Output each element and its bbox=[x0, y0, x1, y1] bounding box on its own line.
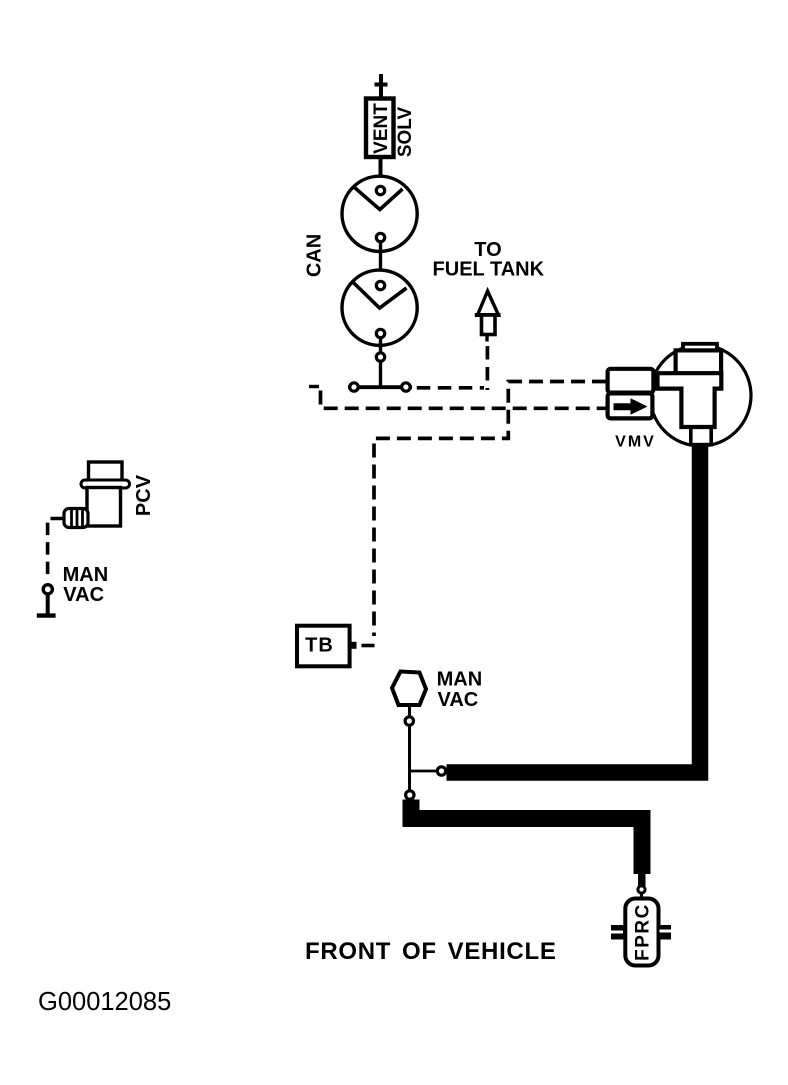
svg-text:FRONT OF VEHICLE: FRONT OF VEHICLE bbox=[305, 938, 557, 965]
FPRC nipple bbox=[638, 872, 646, 886]
VMV T valve bbox=[658, 373, 722, 427]
port canister1 bottom bbox=[376, 233, 384, 241]
port tee right bbox=[402, 383, 410, 391]
canister 1 V notch bbox=[355, 188, 403, 210]
wire hexagon chain down bbox=[408, 726, 411, 796]
VMV circle bbox=[650, 345, 751, 446]
canister circle 1 bbox=[342, 176, 417, 251]
hose line2 tee to VMV lower port (dashed) bbox=[321, 391, 607, 409]
PCV flange bbox=[81, 480, 130, 488]
svg-text:FPRC: FPRC bbox=[632, 903, 653, 961]
wire port to FPRC bbox=[640, 893, 643, 900]
PCV elbow nipple bbox=[64, 509, 88, 528]
svg-text:VAC: VAC bbox=[438, 689, 479, 711]
PCV body bbox=[87, 488, 121, 527]
VMV cap top bbox=[683, 344, 717, 353]
port manifold vacuum left bbox=[43, 585, 52, 594]
svg-text:MAN: MAN bbox=[437, 669, 483, 691]
dash TB connector bbox=[362, 644, 375, 648]
FPRC wing left bbox=[611, 925, 625, 940]
port canister2 top bbox=[376, 281, 384, 289]
VMV lower port box bbox=[608, 393, 653, 418]
dash stub left of tee bbox=[309, 385, 319, 388]
port below hexagon bbox=[405, 717, 413, 725]
atmospheric vent cross bbox=[375, 74, 388, 100]
wire port to terminator bbox=[46, 594, 50, 615]
hose PCV to manifold vacuum (dashed) bbox=[48, 519, 63, 581]
FPRC body bbox=[625, 899, 658, 966]
wire canister1 bottom port to canister2 top port bbox=[379, 238, 382, 286]
branch wire to hose1 bbox=[410, 770, 438, 773]
TB nipple bbox=[350, 642, 357, 649]
port hose1 left bbox=[437, 767, 445, 775]
canister circle 2 bbox=[342, 270, 417, 345]
VMV upper port box bbox=[608, 369, 654, 393]
FPRC wing right bbox=[659, 925, 672, 940]
PCV cap bbox=[89, 462, 123, 482]
wire VENT SOLV to canister 1 bbox=[379, 157, 383, 192]
tee junction wire bbox=[348, 385, 412, 389]
canister 2 V notch bbox=[353, 282, 407, 308]
hose tee to fuel tank (dashed) bbox=[417, 386, 484, 390]
VMV cap body bbox=[676, 350, 722, 373]
port hose2 elbow bbox=[406, 791, 414, 799]
svg-text:SOLV: SOLV bbox=[395, 107, 416, 158]
svg-text:VENT: VENT bbox=[371, 103, 392, 154]
hexagon MAN VAC fitting bbox=[392, 672, 426, 706]
hose VMV to manifold (thick) bbox=[447, 444, 701, 773]
port canister2 bottom bbox=[376, 329, 384, 337]
port canister1 top bbox=[376, 186, 384, 194]
svg-text:CAN: CAN bbox=[304, 234, 326, 277]
wire canister2 to tee bbox=[379, 334, 382, 390]
solenoid box VENT SOLV bbox=[366, 99, 394, 158]
hose manifold to FPRC (thick) bbox=[411, 800, 642, 875]
port junction below canister2 bbox=[376, 353, 384, 361]
svg-text:TB: TB bbox=[305, 635, 334, 657]
VMV flow arrow bbox=[614, 398, 648, 415]
VMV neck bbox=[691, 425, 711, 445]
svg-text:FUEL TANK: FUEL TANK bbox=[433, 259, 545, 281]
port tee left bbox=[350, 383, 358, 391]
fuel tank arrow bbox=[475, 291, 501, 342]
wire hexagon to port bbox=[408, 704, 411, 717]
svg-text:G00012085: G00012085 bbox=[38, 988, 171, 1016]
svg-text:VAC: VAC bbox=[63, 584, 104, 606]
svg-text:MAN: MAN bbox=[63, 564, 109, 586]
svg-text:PCV: PCV bbox=[133, 474, 155, 516]
port FPRC bbox=[638, 886, 645, 893]
hose drop from fuel tank arrow (dashed) bbox=[486, 346, 490, 390]
svg-text:VMV: VMV bbox=[615, 434, 656, 451]
hose VMV upper port to TB (dashed) bbox=[374, 382, 606, 637]
TB box bbox=[297, 626, 350, 667]
manifold terminator bar bbox=[37, 613, 56, 617]
